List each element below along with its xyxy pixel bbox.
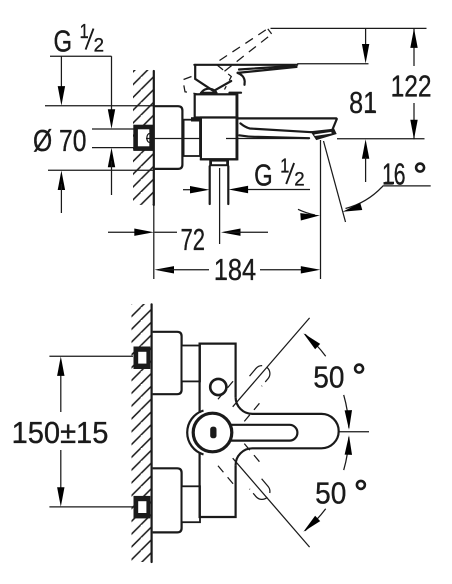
svg-text:1: 1: [80, 20, 89, 43]
svg-text:G: G: [54, 23, 73, 58]
svg-text:2: 2: [94, 34, 104, 56]
svg-text:150±15: 150±15: [12, 415, 109, 450]
svg-text:72: 72: [181, 222, 206, 257]
svg-text:184: 184: [214, 252, 257, 287]
svg-text:81: 81: [349, 85, 377, 120]
svg-text:50: 50: [315, 476, 346, 511]
svg-text:50: 50: [313, 359, 344, 394]
svg-text:Ø 70: Ø 70: [33, 123, 87, 158]
svg-text:122: 122: [391, 69, 432, 104]
